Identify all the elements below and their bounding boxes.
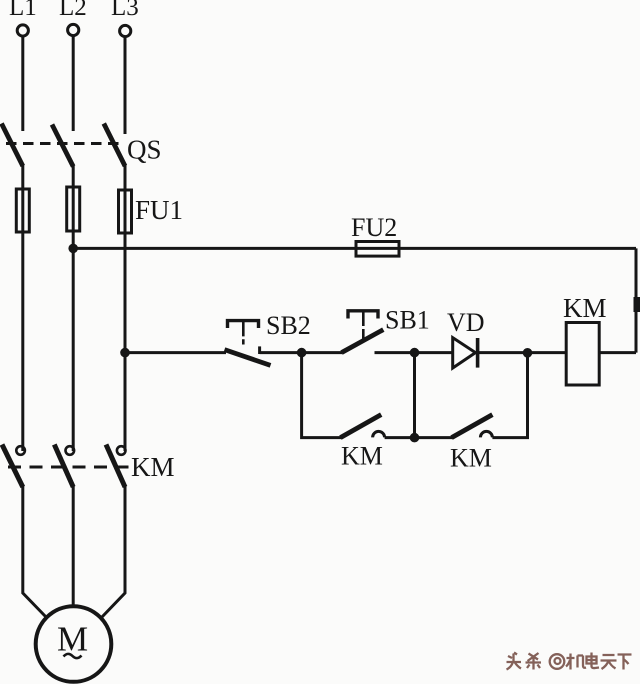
- contactor KM pole 1 blade: [2, 445, 23, 488]
- wire aux2 up to rail: [492, 353, 527, 438]
- node coil-side junction: [523, 348, 533, 358]
- switch QS pole 3 blade: [104, 124, 125, 167]
- wire L1 middle: [21, 165, 24, 452]
- contactor KM pole 2 fixed contact circle: [66, 446, 75, 455]
- fuse FU1 pole 1: [16, 189, 29, 232]
- contactor KM pole 3 blade: [106, 445, 125, 488]
- pushbutton SB2 fixed contact tick: [258, 346, 261, 354]
- watermark 头条@机电天下: [507, 653, 632, 670]
- wire L2 middle: [72, 165, 75, 451]
- right edge mark: [634, 297, 640, 312]
- fuse FU1 pole 2: [67, 187, 80, 231]
- contactor KM linkage dashed line: [8, 466, 129, 469]
- pushbutton SB2 blade: [225, 350, 271, 366]
- pushbutton SB1 cap: [348, 311, 378, 319]
- wire top rail: [73, 247, 636, 250]
- svg-text:KM: KM: [131, 452, 175, 482]
- terminal L3: [120, 25, 131, 36]
- contact KM aux 1 fixed arc: [373, 431, 385, 437]
- contactor KM pole 1 fixed contact circle: [16, 446, 25, 455]
- wire L3 top: [124, 37, 127, 134]
- wire control rail segment B: [260, 351, 342, 354]
- wire L1 to motor: [23, 486, 47, 618]
- wire node to aux2: [415, 436, 453, 439]
- contactor KM pole 3 fixed contact circle: [117, 446, 126, 455]
- switch QS linkage dashed line: [6, 142, 121, 145]
- svg-text:SB2: SB2: [266, 311, 311, 340]
- wire control rail segment D: [478, 351, 566, 354]
- contact KM aux 1 blade: [340, 415, 381, 438]
- motor tilde: [64, 654, 82, 658]
- node L2 control tap: [68, 244, 78, 254]
- terminal L2: [68, 24, 79, 35]
- svg-text:FU1: FU1: [135, 195, 183, 225]
- wire branch 2 vertical: [413, 353, 416, 438]
- pushbutton SB1 stem: [362, 312, 365, 339]
- switch QS pole 2 blade: [52, 125, 73, 167]
- svg-text:FU2: FU2: [351, 213, 397, 242]
- wire control rail segment C: [375, 351, 453, 354]
- wire L2 top: [72, 36, 75, 131]
- wire L2 to motor: [72, 486, 75, 607]
- motor M circle: [36, 606, 112, 682]
- switch QS pole 1 blade: [2, 124, 23, 167]
- fuse FU1 pole 3: [119, 190, 132, 233]
- pushbutton SB2 stem: [242, 322, 245, 345]
- wire control rail segment A: [125, 351, 226, 354]
- svg-text:KM: KM: [563, 293, 607, 323]
- svg-text:KM: KM: [450, 444, 492, 473]
- wire L3 to motor: [102, 486, 126, 618]
- diode VD triangle: [453, 338, 476, 368]
- svg-text:M: M: [57, 620, 88, 659]
- svg-text:KM: KM: [341, 442, 383, 471]
- svg-text:VD: VD: [447, 308, 485, 337]
- pushbutton SB1 blade: [342, 330, 384, 353]
- node branch 1 junction: [297, 348, 307, 358]
- wire right drop: [635, 248, 638, 352]
- terminal L1: [17, 25, 28, 36]
- diode VD cathode bar: [476, 338, 480, 368]
- wire branch 1 left drop: [302, 353, 342, 438]
- wire coil to right drop: [599, 351, 636, 354]
- svg-text:L1: L1: [9, 0, 37, 21]
- node branch 2 junction: [410, 348, 420, 358]
- contact KM aux 2 fixed arc: [480, 431, 492, 437]
- coil KM: [566, 323, 599, 386]
- pushbutton SB2 cap: [228, 321, 259, 328]
- fuse FU2: [356, 242, 399, 257]
- node aux junction: [410, 433, 420, 443]
- contactor KM pole 2 blade: [54, 445, 73, 488]
- wire L3 middle: [124, 165, 127, 452]
- svg-text:SB1: SB1: [385, 306, 430, 335]
- svg-text:L3: L3: [111, 0, 139, 21]
- svg-text:QS: QS: [127, 135, 162, 165]
- wire L1 top: [21, 36, 24, 131]
- wire aux1 to node: [385, 436, 415, 439]
- node L3 control tap: [120, 348, 130, 358]
- svg-text:L2: L2: [59, 0, 87, 21]
- contact KM aux 2 blade: [452, 415, 493, 438]
